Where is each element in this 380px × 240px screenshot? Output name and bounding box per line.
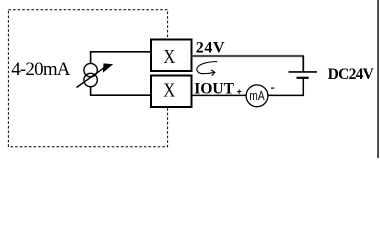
svg-text:4-20mA: 4-20mA [11, 59, 71, 80]
polarity plus [237, 91, 241, 93]
current source variable arrow [77, 68, 104, 87]
svg-text:X: X [163, 79, 175, 101]
mask dashed line in gap between terminal blocks [164, 70, 172, 76]
current source CS1 circle lower [84, 73, 97, 86]
ammeter M1 [246, 85, 268, 107]
svg-text:X: X [163, 45, 175, 67]
svg-text:mA: mA [249, 89, 264, 103]
terminal block X (lower) [151, 76, 192, 108]
wire bottom-left from source to terminal X2 [91, 87, 152, 96]
current source CS1 circle upper [84, 63, 97, 76]
battery BT1 long plate [289, 71, 318, 73]
battery BT1 short plate [297, 77, 309, 79]
polarity minus [271, 87, 274, 89]
terminal block X (upper) [151, 40, 192, 72]
svg-text:DC24V: DC24V [328, 66, 375, 83]
loop direction curved arrow [197, 62, 217, 74]
transmitter enclosure dashed box [8, 10, 167, 147]
wire top-left from source to terminal X1 [91, 52, 152, 64]
wire ammeter to battery bottom [268, 79, 303, 96]
wire bottom-right X2 to ammeter [192, 94, 247, 96]
svg-text:24V: 24V [196, 40, 225, 57]
wire top-right from X1 to battery [192, 55, 305, 57]
page cell border right [377, 0, 379, 158]
